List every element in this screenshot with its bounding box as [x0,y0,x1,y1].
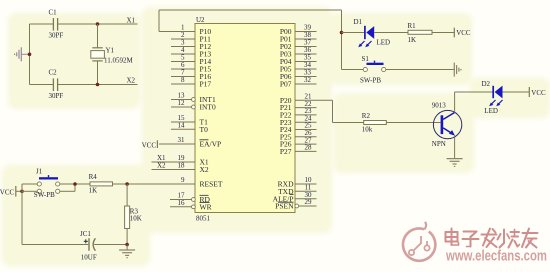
wire pin 1 route to top rail [159,10,342,32]
resistor R1 [408,30,432,34]
pin 4 stub [171,53,195,55]
wire to D1 [342,32,365,34]
svg-text:VCC: VCC [142,141,157,149]
wire ground stub [22,53,30,55]
pin label WR with overline [200,202,212,211]
pin label RD with overline [200,195,211,204]
ground (S1, pointing right) [454,63,461,77]
wire R3 vertical top [126,184,128,206]
svg-text:X2: X2 [200,165,209,174]
node VCC junction [20,190,24,194]
LED D2 [493,86,502,99]
svg-text:R4: R4 [89,173,98,181]
svg-text:1K: 1K [408,36,417,44]
wire R2 to Q1 base [386,122,440,124]
pin 25 stub [295,129,317,131]
node J1 junction [73,182,77,186]
svg-text:RESET: RESET [200,180,223,189]
node X1 junction [96,22,100,26]
pin 24 stub [295,121,317,123]
wire cap to ground [94,244,127,246]
wire pin 19 stub (X1) [152,161,196,163]
svg-text:U2: U2 [196,16,205,24]
node D1 branch junction [340,31,344,35]
power VCC (D2) [529,87,546,97]
wire left vertical (C1-C2) [29,24,31,85]
wire Q1 emitter down [454,135,456,158]
pin 13 stub (INT1) [171,98,195,102]
transistor Q1 9013 [433,110,461,138]
svg-text:8: 8 [181,76,185,84]
svg-text:10UF: 10UF [81,254,97,262]
power VCC (R1) [454,28,471,38]
wire X1 net top rail [30,23,138,25]
svg-text:S1: S1 [362,55,370,63]
resistor R4 [90,182,113,186]
pin label PSEN with overline [275,202,294,211]
pin 33 stub [295,76,317,78]
svg-text:10k: 10k [362,126,373,134]
svg-text:P27: P27 [280,147,292,156]
pin 2 stub [171,38,195,40]
pin 39 stub [295,31,317,33]
svg-text:INT0: INT0 [200,103,216,112]
LED D1 [365,26,374,39]
svg-text:32: 32 [304,76,312,84]
capacitor C2 [53,78,57,91]
svg-text:28: 28 [305,144,313,152]
svg-text:PSEN: PSEN [275,202,294,211]
svg-text:R2: R2 [362,112,371,120]
LED D2 arrows [489,100,502,106]
svg-text:30PF: 30PF [49,32,64,40]
svg-text:18: 18 [178,162,186,170]
pin 11 stub (TXD) [295,190,317,192]
wire pin 31 (EA/VP) to VCC [159,143,195,145]
svg-text:16: 16 [178,199,186,207]
svg-text:EA/VP: EA/VP [200,140,222,149]
wire top rail vertical drop [341,10,343,70]
pin 5 stub [171,61,195,63]
wire J1 top to R4 [60,183,90,185]
svg-text:R1: R1 [408,22,417,30]
wire D2 to VCC [503,91,530,93]
svg-text:9013: 9013 [432,101,447,109]
svg-text:SW-PB: SW-PB [34,191,55,199]
svg-text:10K: 10K [130,215,142,223]
svg-text:D2: D2 [482,80,491,88]
resistor R3 [125,206,130,229]
power VCC (EA/VP) [142,140,158,149]
watermark logo circle [403,222,435,261]
wire R3 vertical bottom [126,229,128,245]
svg-text:12: 12 [178,99,186,107]
ground (reset circuit) [119,245,135,258]
pin label ALE/P with overline [273,194,294,203]
wire R1 to VCC [432,32,454,34]
wire left vertical (reset) [21,184,23,245]
svg-text:WR: WR [200,202,212,211]
svg-text:Y1: Y1 [106,47,115,55]
switch J1 (SW-PB) [37,175,60,193]
plus sign (JC1) [84,239,88,243]
svg-text:9: 9 [181,176,185,184]
wire J1 bottom link [60,184,75,191]
wire pin 9 (RESET) [113,183,196,185]
crystal Y1 [91,24,105,85]
svg-text:X2: X2 [157,162,166,170]
pin 37 stub [295,46,317,48]
pin 6 stub [171,68,195,70]
op-amp U2 body (8051 MCU) [195,24,295,213]
svg-text:NPN: NPN [432,140,446,148]
svg-text:11.0592M: 11.0592M [104,57,133,65]
pin 7 stub [171,76,195,78]
wire to S1 [342,69,364,71]
pin 17 stub (RD) [170,198,195,202]
ground (Q1 emitter) [447,159,463,167]
svg-text:J1: J1 [36,167,43,175]
svg-text:X2: X2 [127,77,136,85]
svg-text:C1: C1 [49,9,58,17]
svg-text:29: 29 [305,198,313,206]
svg-text:P17: P17 [200,80,212,89]
ground (crystal, pointing left) [15,47,22,61]
LED D1 arrows [358,41,371,47]
pin 8 stub [171,83,195,85]
wire VCC to J1 [16,190,22,192]
pin 3 stub [171,46,195,48]
wire pin 21 (P20) route to R2 [295,100,364,122]
pin 14 stub (T0) [171,128,195,130]
node R3 junction [125,182,129,186]
svg-text:30PF: 30PF [49,92,64,100]
wire X2 net bottom rail [30,84,138,86]
pin 30 stub (ALE/P) [295,198,317,200]
wire Q1 collector up [454,92,456,113]
switch S1 (SW-PB) [363,61,386,72]
pin 12 stub (INT0) [171,105,195,109]
svg-text:VCC: VCC [531,89,546,97]
wire bottom rail left [22,244,88,246]
wire D1 to R1 [374,32,408,34]
pin label EA/VP with overline [200,140,222,149]
svg-text:X1: X1 [127,17,136,25]
pin 34 stub [295,68,317,70]
pin 10 stub (RXD) [295,183,317,185]
svg-text:VCC: VCC [456,29,471,37]
svg-text:D1: D1 [354,18,363,26]
wire S1 to ground [386,69,454,71]
pin 28 stub [295,150,317,152]
pin 32 stub [295,83,317,85]
svg-text:LED: LED [377,38,391,46]
pin 29 stub (PSEN) [295,204,317,208]
svg-text:8051: 8051 [196,215,211,223]
pin 16 stub (WR) [170,205,195,209]
capacitor JC1 (electrolytic) [89,238,95,251]
node ground junction [28,53,32,57]
wire collector to D2 [455,91,493,93]
svg-text:1K: 1K [89,187,98,195]
svg-text:JC1: JC1 [80,230,91,238]
pin 35 stub [295,61,317,63]
svg-text:C2: C2 [49,69,58,77]
power VCC (reset circuit) [0,186,16,197]
svg-text:T0: T0 [200,125,209,134]
capacitor C1 [53,18,57,31]
resistor R2 [364,121,387,125]
pin 22 stub [295,107,317,109]
watermark text 电子发烧友 (drawn strokes) [446,229,538,248]
pin 38 stub [295,38,317,40]
wire pin 18 stub (X2) [152,169,196,171]
svg-text:P07: P07 [280,80,292,89]
svg-text:31: 31 [178,136,186,144]
node ground junction (bottom) [125,243,129,247]
wire to J1 bottom [22,190,37,192]
svg-text:LED: LED [484,107,498,115]
pin 27 stub [295,143,317,145]
svg-text:VCC: VCC [0,188,15,196]
pin 15 stub (T1) [171,121,195,123]
svg-text:SW-PB: SW-PB [360,77,381,85]
wire to J1 top [22,183,37,185]
pin 23 stub [295,114,317,116]
pin 36 stub [295,53,317,55]
pin 26 stub [295,136,317,138]
svg-text:www.elecfans.com: www.elecfans.com [445,249,547,265]
node X2 junction [96,83,100,87]
svg-text:14: 14 [178,122,186,130]
